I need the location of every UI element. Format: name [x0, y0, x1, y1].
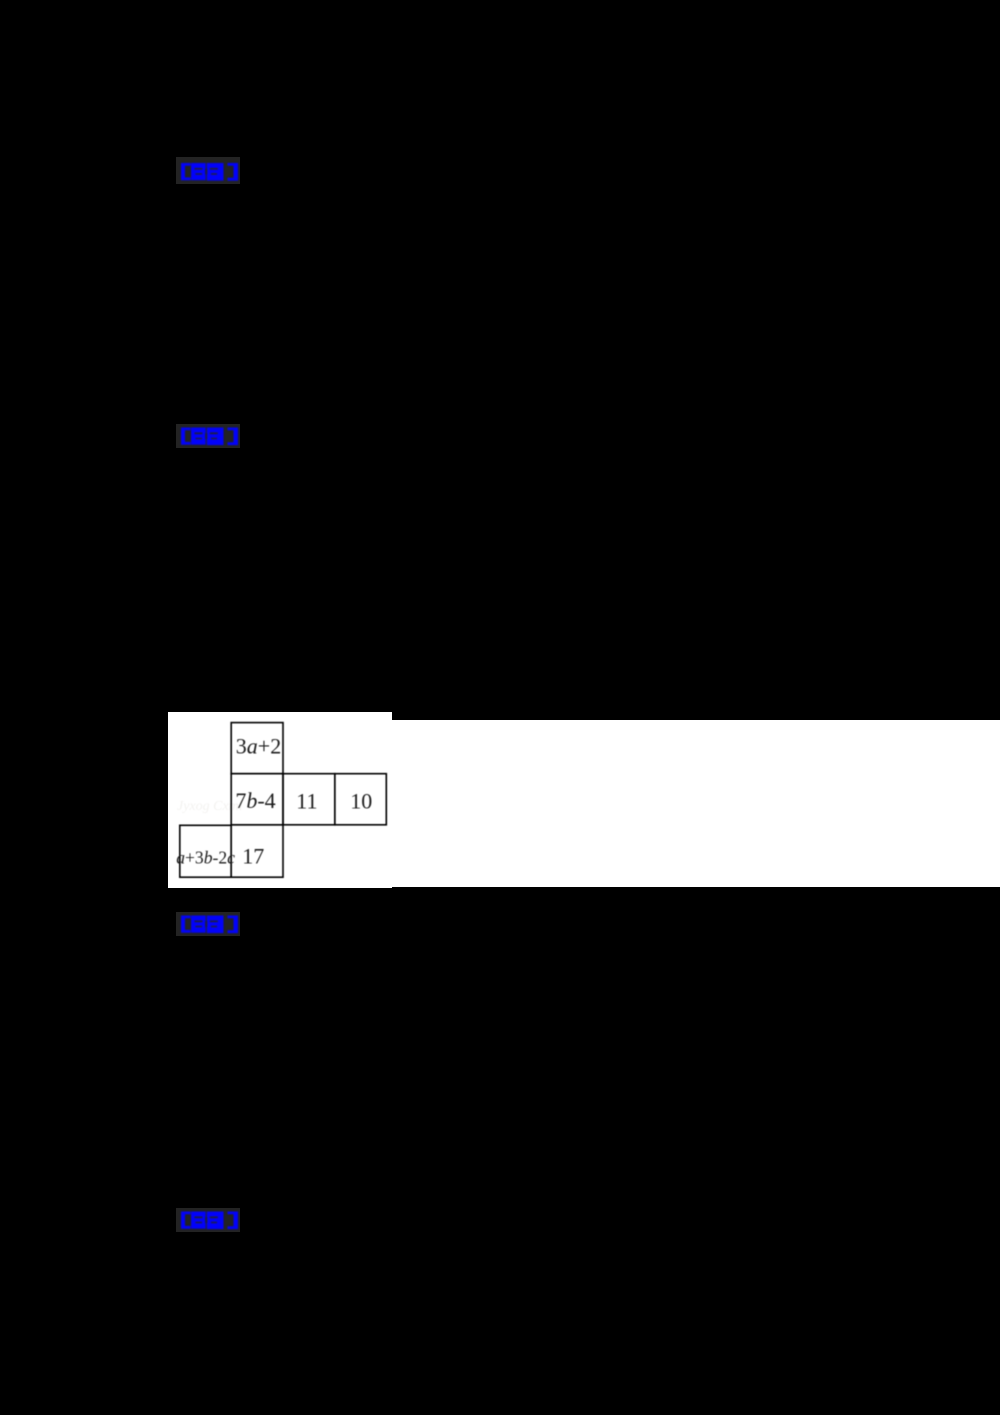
svg-text:7b-4: 7b-4	[235, 788, 275, 813]
cell 17	[231, 825, 283, 877]
cell a+3b-2c	[180, 825, 231, 877]
cell 10	[335, 774, 387, 825]
svg-text:3a+2: 3a+2	[236, 734, 281, 759]
blue tag 1 (answer)	[176, 157, 240, 184]
blue tag 3 (detail)	[176, 912, 240, 936]
cell 3a+2	[231, 723, 283, 774]
blue tag 4 (tip)	[176, 1208, 240, 1232]
cell 11	[283, 774, 335, 825]
cube net diagram svg	[160, 700, 440, 900]
white image panel left part	[168, 712, 392, 888]
faint watermark	[177, 799, 287, 815]
white image panel right part	[392, 720, 1000, 887]
blue tag 2 (analysis)	[176, 424, 240, 448]
svg-text:17: 17	[242, 843, 264, 868]
svg-text:10: 10	[350, 788, 372, 813]
svg-text:a+3b-2c: a+3b-2c	[176, 847, 235, 867]
cell 7b-4	[231, 774, 283, 825]
svg-text:11: 11	[296, 788, 317, 813]
